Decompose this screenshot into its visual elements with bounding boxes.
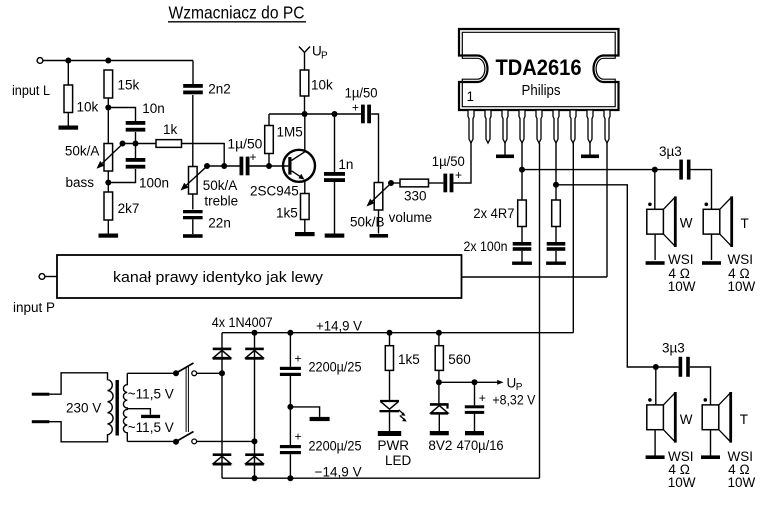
wire mid to ground [290, 407, 319, 417]
node 560 zener [436, 379, 442, 385]
label Up mid [492, 376, 535, 408]
wire Up tap [439, 381, 500, 383]
IC label Philips [522, 83, 561, 99]
svg-text:~11,5 V: ~11,5 V [128, 387, 174, 402]
wire 1n top [334, 114, 336, 172]
svg-text:2200µ/25: 2200µ/25 [309, 359, 362, 374]
resistor 330 [400, 179, 429, 203]
node rail cap2 bottom [287, 475, 293, 481]
ground under 22n [183, 234, 203, 238]
svg-text:LED: LED [385, 453, 412, 468]
svg-text:input P: input P [13, 300, 55, 315]
capacitor 1u/50 coupling [227, 137, 262, 176]
resistor 560 [435, 346, 471, 371]
mains terminal lower [32, 420, 50, 423]
wire rail to cap1 [289, 333, 291, 367]
capacitor 100n [126, 158, 169, 191]
resistor 10k collector [300, 70, 333, 96]
wire treble node to cap [207, 165, 240, 167]
speaker T upper [703, 196, 749, 247]
wire 100n to bass bottom [108, 169, 135, 183]
wire switch to bridge lower [197, 440, 255, 442]
node base-1M5 [266, 163, 272, 169]
node mid filter [287, 404, 293, 410]
ground 100n a [512, 262, 532, 265]
svg-text:+: + [295, 352, 302, 366]
wire 1k5 to ground [304, 220, 306, 233]
wire collector [304, 114, 306, 152]
svg-text:PWR: PWR [378, 438, 410, 453]
wire output1 to 3u3 [522, 169, 679, 171]
capacitor 3u3 lower [662, 341, 690, 377]
ground LED [378, 431, 401, 436]
svg-text:~11,5 V: ~11,5 V [128, 420, 174, 435]
label 4x 1N4007 [212, 315, 273, 330]
wire emitter [304, 180, 306, 194]
svg-text:10W: 10W [668, 279, 696, 294]
wire 22n bottom [192, 219, 194, 234]
wire zener to ground [438, 415, 440, 432]
svg-text:22n: 22n [208, 216, 231, 231]
svg-text:+14,9 V: +14,9 V [316, 319, 362, 334]
svg-text:50k/B: 50k/B [350, 215, 385, 230]
svg-text:+: + [295, 430, 302, 444]
svg-text:10W: 10W [668, 475, 696, 490]
wire wiper to 1k [123, 143, 157, 145]
svg-text:−14,9 V: −14,9 V [315, 464, 362, 479]
wire bass bottom to 2k7 [107, 171, 109, 192]
bass pot wiper arrow [97, 141, 126, 169]
wire cap2 to rail [289, 454, 291, 478]
speaker W upper [647, 196, 693, 247]
wire pin8 to ground [589, 143, 591, 155]
svg-text:470µ/16: 470µ/16 [457, 438, 504, 453]
capacitor 100n a [464, 239, 532, 254]
svg-text:treble: treble [204, 194, 238, 209]
capacitor 22n [183, 210, 231, 231]
resistor 4R7 a [473, 200, 526, 227]
IC U1 TDA2616 body [459, 29, 619, 110]
wire T lower to ground [710, 430, 712, 456]
wire W lower to ground [654, 430, 656, 456]
wire 1k5 to LED [389, 370, 391, 400]
wire cap to pin1 [453, 143, 471, 184]
diode D1 [213, 348, 232, 360]
IC pin 7 [570, 110, 576, 143]
node 470u [472, 379, 478, 385]
capacitor 2200u/25 upper [280, 352, 362, 377]
svg-text:2SC945: 2SC945 [250, 184, 299, 199]
ground T upper [702, 261, 721, 265]
node AC left [219, 370, 225, 376]
svg-text:1: 1 [467, 89, 475, 104]
svg-text:3µ3: 3µ3 [659, 144, 682, 159]
resistor 15k [104, 70, 140, 98]
ground under 2k7 [99, 234, 119, 238]
volume pot wiper arrow [367, 180, 395, 207]
wire switch to bridge upper [197, 372, 222, 374]
svg-text:1µ/50: 1µ/50 [432, 154, 465, 169]
svg-text:15k: 15k [118, 78, 140, 93]
ground T lower [701, 455, 720, 459]
wire node to 10n [108, 108, 135, 122]
ground mid filter [310, 417, 330, 421]
resistor 1k5 PSU [385, 346, 419, 371]
node output1 speaker branch [652, 167, 658, 173]
capacitor 470u/16 [457, 391, 504, 453]
wire 470u to ground [474, 414, 476, 431]
wire input rail [43, 60, 193, 62]
right channel box [57, 255, 462, 298]
resistor 1k5 emitter [276, 194, 309, 221]
ground under 1n [325, 234, 345, 238]
svg-text:Wzmacniacz do PC: Wzmacniacz do PC [169, 3, 305, 23]
node output2 speaker branch [653, 364, 659, 370]
zener diode 8V2 [428, 404, 452, 452]
wire bridge left leg [221, 333, 223, 479]
svg-text:kanał prawy identyko jak lewy: kanał prawy identyko jak lewy [113, 269, 324, 286]
svg-text:2x 4R7: 2x 4R7 [473, 206, 514, 221]
wire W upper to ground [654, 234, 656, 260]
wire 2k7 bottom [107, 220, 109, 234]
svg-text:1M5: 1M5 [277, 125, 303, 140]
capacitor 3u3 upper [659, 144, 691, 180]
svg-text:+8,32 V: +8,32 V [492, 393, 535, 408]
polarity dot T lower [704, 398, 708, 402]
transformer primary 230V [49, 373, 113, 442]
transistor Q1 2SC945 [250, 150, 315, 199]
input L terminal [12, 58, 50, 98]
wire treble to 22n [192, 194, 194, 210]
speaker T lower [702, 392, 748, 443]
capacitor 1u/50 to IC [432, 154, 465, 192]
wire 100nb to ground [555, 251, 557, 262]
wire pin4 down [521, 143, 523, 200]
node 1n junction [332, 111, 338, 117]
arrow Up tap [497, 380, 503, 385]
ground pin 8 [581, 155, 599, 159]
wire pin7 down to +rail [572, 143, 574, 333]
svg-text:W: W [680, 412, 693, 427]
capacitor 2200u/25 lower [280, 430, 362, 455]
wire branch to 3u3 lower [656, 366, 679, 368]
mains terminal upper [32, 393, 50, 396]
resistor 1k [156, 122, 182, 148]
svg-text:230 V: 230 V [66, 401, 101, 416]
svg-text:+: + [352, 100, 359, 114]
polarity dot W lower [648, 398, 652, 402]
wire 10k to node [304, 96, 306, 114]
node collector [302, 111, 308, 117]
svg-text:TDA2616: TDA2616 [496, 55, 582, 80]
node rail D2 top [252, 330, 258, 336]
svg-text:4x 1N4007: 4x 1N4007 [212, 315, 273, 330]
wire 3u3 to T speaker [691, 170, 712, 210]
transformer center tap ground [127, 409, 160, 418]
wire 1M5 top [268, 114, 270, 126]
wire 330 to cap [429, 182, 444, 184]
diode D4 [245, 453, 264, 465]
svg-text:1n: 1n [338, 157, 353, 172]
svg-text:W: W [680, 216, 693, 231]
ground 100n b [546, 262, 566, 265]
label PWR LED [378, 438, 412, 468]
wire 3u3 to T lower [690, 367, 711, 405]
diode D3 [213, 453, 232, 465]
wire 10k top [67, 61, 69, 86]
svg-text:+: + [479, 391, 486, 405]
wire pin9 down [606, 143, 608, 277]
wire branch to W lower [655, 367, 657, 405]
ground under 10k [59, 126, 79, 130]
wire cap1 to mid [289, 376, 291, 445]
wire branch to W speaker [654, 170, 656, 210]
wire 1k to corner [182, 144, 225, 167]
node pin6 output [553, 182, 559, 188]
svg-text:2n2: 2n2 [208, 82, 231, 97]
input P terminal [13, 274, 55, 315]
wire T upper to ground [711, 234, 713, 260]
svg-text:Philips: Philips [522, 83, 561, 99]
wire cap to volume [371, 114, 378, 183]
node bass bottom [105, 180, 111, 186]
wire cap to base [250, 165, 289, 167]
svg-text:50k/A: 50k/A [203, 178, 238, 193]
node 15k-10n [105, 105, 111, 111]
svg-text:bass: bass [66, 175, 95, 190]
wire 1n bottom [334, 182, 336, 234]
svg-text:2k7: 2k7 [118, 201, 140, 216]
potentiometer 50k/A bass [65, 144, 113, 191]
potentiometer 50k/A treble [189, 167, 239, 209]
svg-text:10k: 10k [311, 78, 333, 93]
wire collector rail [269, 113, 361, 115]
svg-text:1k5: 1k5 [398, 352, 420, 367]
svg-text:50k/A: 50k/A [65, 144, 100, 159]
diode D2 [245, 348, 264, 360]
switch pole upper [173, 363, 197, 376]
wire LED to ground [389, 412, 391, 431]
node 10n-100n wiper junction [133, 141, 139, 147]
svg-text:+: + [455, 168, 462, 182]
resistor 1M5 [265, 125, 303, 154]
svg-text:1k: 1k [163, 122, 178, 137]
node input-15k [105, 58, 111, 64]
wire -14.9V rail [222, 464, 540, 479]
LED PWR [380, 401, 407, 422]
wire rail to 1k5 [389, 333, 391, 346]
svg-text:10k: 10k [77, 100, 99, 115]
node rail cap1 top [287, 330, 293, 336]
wire pin6 down [555, 143, 557, 200]
label W upper WSI [668, 252, 696, 294]
svg-text:1µ/50: 1µ/50 [345, 86, 378, 101]
svg-text:10W: 10W [728, 279, 756, 294]
switch pole lower [173, 432, 197, 445]
wire 2n2 to treble pot [192, 95, 194, 167]
resistor 4R7 b [552, 200, 561, 227]
resistor 10k input [64, 85, 99, 115]
label T upper WSI [728, 252, 756, 294]
title Wzmacniacz do PC [168, 3, 306, 23]
wire volume bottom [378, 210, 380, 234]
potentiometer 50k/B volume [350, 183, 432, 230]
wire 560 to node [438, 370, 440, 403]
supply symbol Up [299, 44, 328, 62]
svg-text:P: P [321, 51, 328, 62]
svg-text:1k5: 1k5 [276, 206, 298, 221]
wire box to pin9 [462, 276, 608, 278]
wire rail to 2n2 [192, 61, 194, 85]
svg-text:T: T [740, 412, 748, 427]
wire 10n-100n [135, 132, 137, 158]
wire 100na to ground [521, 251, 523, 262]
ground under volume [370, 234, 389, 238]
svg-text:2200µ/25: 2200µ/25 [309, 438, 362, 453]
svg-text:+: + [250, 150, 257, 164]
wire Up to 10k [304, 53, 306, 71]
svg-text:10n: 10n [142, 101, 165, 116]
polarity dot W upper [648, 203, 652, 207]
ground W lower [646, 455, 665, 459]
resistor 2k7 [104, 192, 139, 220]
label T lower WSI [728, 449, 756, 490]
IC pin 9 [604, 110, 610, 143]
wire input P to box [45, 276, 57, 278]
treble pot wiper arrow [181, 163, 211, 191]
wire bridge right leg [254, 333, 256, 479]
ground under 1k5 [295, 232, 315, 236]
transformer core [116, 380, 119, 436]
ground 470u [465, 431, 484, 435]
wire 4R7a to 100n [521, 227, 523, 243]
node rail 1k5 [387, 330, 393, 336]
node input-10k [65, 58, 71, 64]
svg-text:WSI: WSI [728, 252, 754, 267]
svg-text:1µ/50: 1µ/50 [227, 137, 262, 152]
wire output2 right [556, 185, 656, 367]
IC pin 2 [485, 110, 491, 143]
IC pin 1 label [467, 89, 475, 104]
capacitor 100n b [547, 242, 566, 251]
capacitor 10n [126, 101, 165, 132]
wire pin3 to ground [504, 143, 506, 155]
svg-text:330: 330 [404, 189, 427, 204]
wire 15k to bass pot [107, 98, 109, 144]
IC pin 1 [468, 110, 474, 143]
IC label TDA2616 [496, 55, 582, 80]
IC pin 4 [519, 110, 525, 143]
svg-text:2x 100n: 2x 100n [464, 239, 508, 254]
wire node to 470u [474, 382, 476, 405]
label W lower WSI [668, 449, 696, 490]
wire +14.9V rail [222, 319, 573, 334]
IC pin 8 [587, 110, 593, 143]
capacitor 1n [324, 157, 353, 182]
wire 4R7b to 100n [555, 227, 557, 243]
IC pin 6 [553, 110, 559, 143]
wire 1M5 bottom [268, 154, 270, 167]
switch linkage [186, 367, 188, 432]
IC pin 3 [502, 110, 508, 143]
ground pin 3 [496, 155, 514, 159]
wire 10k bottom [67, 113, 69, 126]
svg-text:3µ3: 3µ3 [662, 341, 685, 356]
wire wiper to 330 [391, 182, 400, 184]
svg-text:560: 560 [448, 352, 471, 367]
node pin4 output [519, 167, 525, 173]
ground W upper [646, 261, 665, 265]
polarity dot T upper [705, 203, 709, 207]
transformer secondary 2x11.5V [123, 373, 176, 441]
ground zener [430, 431, 449, 435]
wire rail to 560 [438, 333, 440, 346]
svg-text:100n: 100n [139, 176, 169, 191]
node corner-treble [221, 163, 227, 169]
wire pin5 down to -rail [539, 143, 541, 478]
speaker W lower [647, 392, 693, 443]
svg-text:8V2: 8V2 [428, 438, 452, 453]
node AC right [252, 438, 258, 444]
capacitor 2n2 [183, 82, 231, 97]
svg-text:T: T [741, 216, 749, 231]
svg-text:volume: volume [389, 210, 433, 225]
node rail 560 [436, 330, 442, 336]
capacitor 1u/50 output [345, 86, 378, 124]
IC pin 5 [536, 110, 542, 143]
svg-text:10W: 10W [728, 475, 756, 490]
svg-text:input L: input L [12, 83, 50, 98]
svg-text:WSI: WSI [668, 252, 694, 267]
svg-text:P: P [516, 382, 523, 393]
node rail D2 bottom [252, 475, 258, 481]
